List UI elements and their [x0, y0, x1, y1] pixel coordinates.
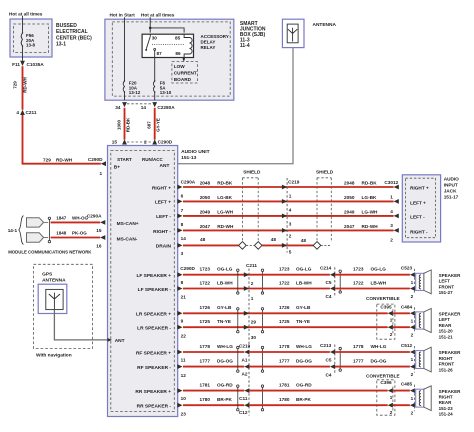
- svg-text:Hot at all times: Hot at all times: [9, 11, 43, 16]
- svg-text:1726: 1726: [279, 305, 290, 310]
- svg-text:SPEAKER: SPEAKER: [439, 312, 462, 317]
- svg-text:C4: C4: [326, 372, 332, 377]
- connector C290A pins 6,7,8,14,3: [177, 185, 182, 190]
- svg-text:F11: F11: [12, 62, 20, 67]
- svg-text:A1: A1: [242, 358, 248, 363]
- svg-text:C210: C210: [239, 343, 251, 348]
- svg-text:1: 1: [390, 318, 393, 323]
- svg-text:LR SPEAKER -: LR SPEAKER -: [137, 325, 171, 331]
- low current board: [172, 62, 198, 84]
- svg-text:WH-LG: WH-LG: [371, 344, 387, 349]
- svg-text:C2280A: C2280A: [157, 105, 175, 110]
- twisted pair: [261, 308, 263, 310]
- svg-text:2: 2: [411, 333, 414, 338]
- svg-text:B+: B+: [114, 164, 120, 170]
- wire 1726 GY-LB seg2: [249, 312, 388, 314]
- svg-text:OG-RD: OG-RD: [217, 383, 233, 388]
- svg-text:3: 3: [289, 222, 292, 227]
- svg-text:LEFT -: LEFT -: [410, 215, 425, 220]
- svg-text:1777: 1777: [353, 359, 364, 364]
- svg-text:LB-WH: LB-WH: [296, 280, 312, 285]
- svg-text:1847: 1847: [56, 215, 67, 220]
- svg-text:C290A: C290A: [87, 213, 102, 218]
- svg-text:86: 86: [175, 51, 181, 56]
- svg-text:RD-BK: RD-BK: [217, 181, 233, 186]
- svg-text:C3012: C3012: [384, 180, 398, 185]
- svg-text:C5: C5: [326, 280, 332, 285]
- relay dotted actuator line: [152, 44, 184, 46]
- twisted pair: [261, 385, 263, 387]
- svg-text:LEFT: LEFT: [439, 279, 450, 284]
- svg-text:14: 14: [141, 105, 147, 110]
- svg-text:2: 2: [390, 238, 393, 243]
- svg-text:LF SPEAKER -: LF SPEAKER -: [138, 287, 172, 293]
- wire fuse F56 to connector C1035A: [22, 46, 24, 61]
- wire 1722 LB-WH seg1: [183, 288, 249, 290]
- connector C213 pins C5,C4: [334, 345, 336, 375]
- svg-text:AUDIO UNIT: AUDIO UNIT: [181, 149, 210, 155]
- brace: [19, 216, 24, 245]
- svg-text:ANTENNA: ANTENNA: [313, 22, 337, 28]
- svg-text:87: 87: [157, 51, 163, 56]
- wire 2050 LG-BK seg1: [183, 200, 287, 202]
- relay coil: [184, 34, 192, 57]
- wire 1723 OG-LG seg3: [335, 274, 410, 276]
- wire 729 RD-WH (vertical): [22, 66, 24, 110]
- wire 1000 RD-BK: [124, 108, 126, 140]
- svg-text:1780: 1780: [200, 397, 211, 402]
- svg-text:22: 22: [181, 333, 187, 338]
- svg-text:A2: A2: [242, 372, 248, 377]
- wire 2049 LG-WH seg1: [183, 215, 287, 217]
- svg-text:3: 3: [390, 223, 393, 228]
- twisted pair: [339, 347, 341, 349]
- svg-text:151-20: 151-20: [439, 329, 454, 334]
- svg-text:C211: C211: [246, 263, 257, 268]
- in-line connector column dashed line: [248, 269, 250, 416]
- svg-text:7: 7: [181, 208, 184, 213]
- svg-text:RD-BK: RD-BK: [362, 181, 378, 186]
- wire Hot in Start to fuse F20: [124, 17, 126, 81]
- svg-text:1722: 1722: [279, 280, 290, 285]
- svg-text:CONVERTIBLE: CONVERTIBLE: [366, 373, 400, 378]
- wire from Hot at all times into BEC: [22, 16, 24, 33]
- wire 48 drain to shield 2: [287, 244, 313, 246]
- svg-text:13-10: 13-10: [160, 90, 172, 95]
- svg-text:2: 2: [411, 372, 414, 377]
- svg-text:RR SPEAKER -: RR SPEAKER -: [137, 404, 172, 410]
- svg-text:GY-LB: GY-LB: [296, 305, 311, 310]
- speaker RF: [416, 351, 424, 369]
- svg-text:13-1: 13-1: [56, 42, 66, 48]
- svg-text:151-23: 151-23: [439, 406, 454, 411]
- svg-text:1: 1: [411, 280, 414, 285]
- twisted pair: [237, 269, 239, 271]
- LR speaker + output pin 9: [177, 311, 182, 316]
- svg-text:2: 2: [144, 139, 147, 144]
- wire relay 87 to fuse F6: [154, 58, 156, 81]
- svg-text:2048: 2048: [200, 181, 211, 186]
- svg-text:AUDIO: AUDIO: [444, 177, 459, 182]
- in-line connector pins: [244, 311, 249, 316]
- wire 1778 WH-LG seg3: [335, 351, 410, 353]
- svg-text:LEFT: LEFT: [439, 317, 450, 322]
- svg-text:2047: 2047: [344, 224, 355, 229]
- svg-text:85: 85: [175, 36, 181, 41]
- svg-text:151-21: 151-21: [439, 334, 454, 339]
- svg-text:48: 48: [200, 237, 206, 242]
- svg-text:1: 1: [100, 171, 103, 176]
- svg-text:30: 30: [152, 36, 158, 41]
- svg-text:FRONT: FRONT: [439, 284, 455, 289]
- wire 1780 BR-PK seg2: [249, 404, 388, 406]
- svg-text:14-1: 14-1: [8, 228, 18, 233]
- svg-text:RUN/ACC: RUN/ACC: [142, 157, 163, 162]
- svg-text:With navigation: With navigation: [36, 352, 72, 358]
- svg-text:CURRENT: CURRENT: [174, 71, 197, 76]
- svg-text:Hot at all times: Hot at all times: [141, 13, 175, 18]
- svg-text:LG-BK: LG-BK: [217, 195, 232, 200]
- svg-text:RD-WH: RD-WH: [23, 77, 28, 93]
- speaker LR: [416, 312, 424, 329]
- svg-text:OG-LG: OG-LG: [296, 267, 312, 272]
- twisted pair: [261, 346, 263, 348]
- svg-text:ELECTRICAL: ELECTRICAL: [56, 29, 88, 35]
- svg-text:RIGHT: RIGHT: [439, 356, 453, 361]
- wire 1781 OG-RD seg1: [183, 390, 244, 392]
- svg-text:1: 1: [390, 195, 393, 200]
- svg-text:1: 1: [411, 319, 414, 324]
- svg-text:12: 12: [181, 373, 187, 378]
- svg-text:BR-PK: BR-PK: [296, 397, 311, 402]
- svg-text:RD-WH: RD-WH: [362, 224, 379, 229]
- wire GPS antenna to audio unit ANT: [54, 310, 107, 340]
- RR speaker + output pin 10: [177, 388, 182, 393]
- svg-text:C290D: C290D: [180, 266, 195, 271]
- svg-text:LG-WH: LG-WH: [362, 210, 378, 215]
- wires fuses to SJB edge: [124, 92, 126, 100]
- svg-text:C485: C485: [401, 382, 413, 387]
- svg-text:1722: 1722: [353, 280, 364, 285]
- svg-text:1722: 1722: [200, 280, 211, 285]
- svg-text:C484: C484: [401, 304, 413, 309]
- connector C290D pins 15,2 (START / RUN-ACC): [127, 141, 152, 143]
- wire 48 drain to C219: [262, 244, 287, 246]
- connector C2280A pins 34,14: [127, 103, 152, 105]
- svg-text:C290D: C290D: [88, 157, 103, 162]
- svg-text:INPUT: INPUT: [444, 183, 458, 188]
- LF speaker - output pin 21: [177, 286, 182, 291]
- speaker RR: [416, 389, 424, 407]
- svg-text:C211: C211: [26, 110, 37, 115]
- svg-text:SPEAKER: SPEAKER: [439, 273, 462, 278]
- accessory delay relay: [142, 34, 193, 57]
- svg-text:1723: 1723: [353, 267, 364, 272]
- svg-text:1778: 1778: [353, 344, 364, 349]
- svg-text:RELAY: RELAY: [201, 45, 216, 50]
- svg-text:RF SPEAKER +: RF SPEAKER +: [136, 350, 171, 356]
- twisted pair: [237, 385, 239, 387]
- svg-text:1777: 1777: [279, 359, 290, 364]
- svg-text:2: 2: [390, 410, 393, 415]
- svg-text:TN-YE: TN-YE: [217, 319, 231, 324]
- svg-text:15: 15: [112, 139, 118, 144]
- svg-text:RD-WH: RD-WH: [56, 158, 73, 163]
- svg-text:JACK: JACK: [444, 189, 457, 194]
- antenna: [282, 19, 304, 47]
- svg-text:C5: C5: [326, 358, 332, 363]
- svg-text:151-17: 151-17: [444, 195, 459, 200]
- svg-text:16: 16: [96, 244, 102, 249]
- svg-text:1725: 1725: [200, 319, 211, 324]
- svg-text:C214: C214: [320, 266, 332, 271]
- wire 1725 TN-YE seg2: [249, 326, 388, 328]
- svg-text:1000: 1000: [117, 119, 122, 130]
- svg-text:151-26: 151-26: [439, 367, 454, 372]
- svg-text:LOW: LOW: [174, 64, 186, 69]
- wire 48 drain seg1: [183, 244, 239, 246]
- svg-text:SHIELD: SHIELD: [316, 170, 334, 175]
- twisted pair: [44, 221, 49, 223]
- svg-text:48: 48: [271, 237, 277, 242]
- svg-text:TN-YE: TN-YE: [296, 319, 310, 324]
- svg-text:ANT: ANT: [160, 163, 170, 169]
- svg-text:11: 11: [181, 357, 186, 362]
- wire 1723 OG-LG seg1: [183, 274, 249, 276]
- svg-text:13-12: 13-12: [129, 90, 141, 95]
- svg-text:10: 10: [181, 396, 187, 401]
- svg-text:OG-RD: OG-RD: [296, 383, 312, 388]
- svg-text:1778: 1778: [279, 344, 290, 349]
- svg-text:LEFT +: LEFT +: [155, 200, 171, 206]
- svg-text:DELAY: DELAY: [201, 40, 216, 45]
- LF speaker + output pin 8: [177, 272, 182, 277]
- svg-text:1: 1: [411, 396, 414, 401]
- svg-text:4: 4: [289, 208, 292, 213]
- svg-text:START: START: [117, 157, 132, 162]
- svg-text:729: 729: [43, 158, 51, 163]
- svg-text:151-24: 151-24: [439, 412, 454, 417]
- svg-text:2047: 2047: [200, 224, 211, 229]
- svg-text:30: 30: [251, 335, 257, 340]
- svg-text:2049: 2049: [200, 210, 211, 215]
- svg-text:GY-YE: GY-YE: [156, 118, 161, 132]
- connector C396 (convertible): [377, 380, 395, 415]
- connector C3012 pins 1,4,3,2: [394, 185, 399, 190]
- svg-text:8: 8: [181, 280, 184, 285]
- GPS antenna (with navigation): [34, 264, 93, 348]
- twisted pair: [237, 308, 239, 310]
- svg-text:2050: 2050: [344, 195, 355, 200]
- svg-text:1780: 1780: [279, 397, 290, 402]
- module communications network connectors: [27, 218, 44, 227]
- svg-text:C396: C396: [380, 380, 392, 385]
- wire branch to relay pin 85: [150, 28, 184, 33]
- svg-text:1781: 1781: [279, 383, 290, 388]
- svg-text:WH-LG: WH-LG: [296, 344, 312, 349]
- svg-text:1726: 1726: [200, 305, 211, 310]
- svg-text:WH-LG: WH-LG: [217, 344, 233, 349]
- audio unit box: [108, 146, 178, 417]
- wire 1725 TN-YE seg1: [183, 326, 249, 328]
- audio input jack: [402, 175, 440, 242]
- svg-text:2: 2: [289, 233, 292, 238]
- svg-text:RIGHT +: RIGHT +: [410, 185, 429, 190]
- svg-text:C290A: C290A: [181, 179, 196, 184]
- wires to speaker connector: [393, 390, 410, 392]
- svg-text:21: 21: [181, 295, 187, 300]
- svg-text:C395: C395: [380, 304, 392, 309]
- svg-text:729: 729: [13, 81, 18, 89]
- svg-text:RR SPEAKER +: RR SPEAKER +: [135, 389, 171, 395]
- svg-text:2: 2: [411, 411, 414, 416]
- svg-text:MS-CAN+: MS-CAN+: [117, 221, 139, 227]
- wires C219 to audio input jack: [287, 186, 394, 188]
- svg-text:15: 15: [96, 228, 102, 233]
- svg-text:14: 14: [181, 236, 187, 241]
- wire relay 86 to low current board: [183, 58, 185, 62]
- wire 1722 LB-WH seg2: [249, 288, 330, 290]
- svg-text:9: 9: [181, 319, 184, 324]
- svg-text:RIGHT -: RIGHT -: [410, 229, 428, 234]
- LR speaker - output pin 22: [177, 325, 182, 330]
- wire 1722 LB-WH seg3: [335, 288, 410, 290]
- wire 1778 WH-LG seg2: [249, 351, 330, 353]
- wire 1777 DG-OG seg2: [249, 366, 330, 368]
- svg-text:REAR: REAR: [439, 323, 453, 328]
- connector C290A pins 15,16: [100, 220, 105, 225]
- svg-text:C11: C11: [239, 396, 248, 401]
- svg-text:2: 2: [390, 332, 393, 337]
- svg-text:LR SPEAKER +: LR SPEAKER +: [136, 312, 171, 318]
- relay switch blade pin 30 to 87: [149, 34, 151, 36]
- svg-text:MODULE COMMUNICATIONS NETWORK: MODULE COMMUNICATIONS NETWORK: [8, 249, 92, 254]
- svg-text:OG-LG: OG-LG: [371, 267, 387, 272]
- wire antenna to audio unit ANT: [174, 48, 293, 164]
- svg-text:151-27: 151-27: [439, 290, 454, 295]
- svg-text:1723: 1723: [279, 267, 290, 272]
- svg-text:ANT: ANT: [115, 338, 125, 344]
- svg-text:LF SPEAKER +: LF SPEAKER +: [136, 273, 171, 279]
- wire 729 RD-WH to audio unit B+: [23, 115, 101, 164]
- svg-text:C12: C12: [239, 410, 248, 415]
- svg-text:DG-OG: DG-OG: [371, 359, 387, 364]
- wire 1847 WH-OG (MS-CAN+): [51, 221, 101, 223]
- wire 1726 GY-LB seg1: [183, 312, 249, 314]
- svg-text:DG-OG: DG-OG: [296, 359, 312, 364]
- svg-text:BR-PK: BR-PK: [217, 397, 232, 402]
- wire 2048 RD-BK seg1: [183, 186, 287, 188]
- svg-text:DRAIN: DRAIN: [156, 244, 172, 250]
- svg-text:1781: 1781: [200, 383, 211, 388]
- svg-text:687: 687: [147, 121, 152, 129]
- svg-text:1: 1: [390, 395, 393, 400]
- wire 1848 PK-OG (MS-CAN-): [51, 237, 101, 239]
- svg-text:2048: 2048: [344, 181, 355, 186]
- wires to speaker connector: [393, 312, 410, 314]
- svg-text:1848: 1848: [56, 231, 67, 236]
- svg-text:1777: 1777: [200, 359, 211, 364]
- svg-text:2: 2: [411, 294, 414, 299]
- svg-text:FRONT: FRONT: [439, 362, 455, 367]
- svg-text:RIGHT -: RIGHT -: [153, 229, 171, 235]
- svg-text:2050: 2050: [200, 195, 211, 200]
- twisted pair: [237, 346, 239, 348]
- RF speaker + output pin 11: [177, 350, 182, 355]
- svg-text:LG-BK: LG-BK: [362, 195, 377, 200]
- svg-text:LB-WH: LB-WH: [371, 280, 387, 285]
- svg-text:C4: C4: [326, 294, 332, 299]
- wire 1781 OG-RD seg2: [249, 390, 388, 392]
- svg-text:2: 2: [251, 281, 254, 286]
- svg-text:ACCESSORY: ACCESSORY: [201, 34, 229, 39]
- svg-text:4: 4: [390, 209, 393, 214]
- svg-text:6: 6: [181, 194, 184, 199]
- svg-text:151-13: 151-13: [181, 155, 197, 161]
- svg-text:C213: C213: [320, 343, 332, 348]
- svg-text:CENTER (BEC): CENTER (BEC): [56, 35, 92, 41]
- svg-text:1: 1: [411, 357, 414, 362]
- svg-text:1: 1: [289, 194, 292, 199]
- svg-text:GY-LB: GY-LB: [217, 305, 232, 310]
- fuse F56 20A: [21, 33, 22, 46]
- svg-text:MS-CAN-: MS-CAN-: [117, 236, 138, 242]
- svg-text:RD-BK: RD-BK: [126, 117, 131, 132]
- svg-text:2049: 2049: [344, 210, 355, 215]
- speaker LF: [416, 273, 424, 290]
- wire 1778 WH-LG seg1: [183, 351, 244, 353]
- svg-text:1723: 1723: [200, 267, 211, 272]
- svg-text:29: 29: [251, 320, 257, 325]
- svg-text:4: 4: [16, 110, 19, 115]
- svg-text:PK-OG: PK-OG: [72, 231, 87, 236]
- svg-text:SPEAKER: SPEAKER: [439, 389, 462, 394]
- svg-text:CONVERTIBLE: CONVERTIBLE: [366, 296, 400, 301]
- svg-text:SHIELD: SHIELD: [243, 170, 261, 175]
- svg-text:34: 34: [115, 105, 121, 110]
- svg-text:Hot in Start: Hot in Start: [110, 13, 136, 18]
- svg-text:OG-LG: OG-LG: [217, 267, 233, 272]
- svg-text:11-4: 11-4: [240, 43, 250, 49]
- connector C211 pin 4: [20, 110, 25, 115]
- svg-text:1778: 1778: [200, 344, 211, 349]
- svg-text:1725: 1725: [279, 319, 290, 324]
- connector C290D pin 1 (B+): [101, 161, 106, 166]
- bussed electrical center (BEC) box: [10, 19, 52, 57]
- svg-text:BOARD: BOARD: [174, 77, 192, 82]
- wire 1777 DG-OG seg1: [183, 366, 244, 368]
- svg-text:8: 8: [181, 222, 184, 227]
- svg-text:C523: C523: [401, 266, 413, 271]
- connector C219 pins 1,4,3,2,5: [286, 178, 288, 253]
- connector C211: [244, 272, 249, 277]
- svg-text:3: 3: [181, 251, 184, 256]
- wire 2047 RD-WH seg1: [183, 229, 287, 231]
- twisted pair: [339, 270, 341, 272]
- svg-text:RIGHT +: RIGHT +: [152, 185, 171, 191]
- svg-text:LB-WH: LB-WH: [217, 280, 233, 285]
- RF speaker - output pin 12: [177, 364, 182, 369]
- svg-text:LG-WH: LG-WH: [217, 210, 233, 215]
- svg-text:C512: C512: [401, 343, 413, 348]
- svg-text:LEFT -: LEFT -: [156, 214, 171, 220]
- svg-text:REAR: REAR: [439, 400, 453, 405]
- svg-text:RD-WH: RD-WH: [217, 224, 234, 229]
- twisted pair: [261, 269, 263, 271]
- svg-text:SPEAKER: SPEAKER: [439, 350, 462, 355]
- svg-text:ANTENNA: ANTENNA: [42, 277, 66, 283]
- svg-text:C1035A: C1035A: [27, 62, 45, 67]
